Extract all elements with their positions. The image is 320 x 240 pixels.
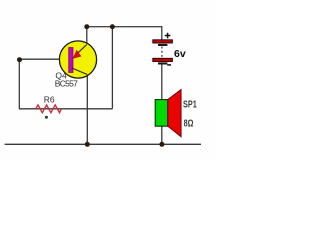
wire resistor row horizontal — [19, 108, 113, 110]
wire battery branch top corner down — [161, 26, 163, 40]
resistor R6 value asterisk — [45, 116, 48, 119]
battery B1 positive plus sign — [165, 33, 171, 39]
transistor base bar — [69, 48, 73, 73]
wire top rail — [87, 26, 162, 28]
svg-text:SP1: SP1 — [183, 98, 197, 110]
wire left vertical base-to-resistor — [18, 59, 20, 109]
wire battery to speaker — [161, 65, 163, 101]
battery B1 cell2 long red plate — [153, 58, 173, 61]
wire bottom rail — [5, 143, 201, 145]
battery B1 cell1 long red plate — [153, 40, 173, 43]
transistor Q2 body circle — [59, 41, 96, 78]
node A base/resistor junction — [17, 57, 22, 62]
resistor R6 zigzag — [36, 105, 62, 113]
node bottom rail collector tee — [85, 142, 90, 147]
battery B1 cell2 short plate — [158, 62, 167, 64]
battery B1 inter-cell dashed link — [161, 47, 163, 59]
battery B1 cell1 short plate — [158, 44, 167, 46]
battery B1 negative minus sign — [167, 64, 171, 66]
wire base horizontal — [19, 58, 68, 60]
node bottom rail speaker tee — [159, 142, 164, 147]
wire collector down to bottom rail — [86, 75, 88, 145]
transistor collector diagonal — [72, 68, 88, 75]
transistor emitter arrow (PNP, points to base bar) — [73, 50, 81, 58]
node top rail bias tee — [110, 24, 115, 29]
transistor emitter diagonal — [77, 45, 87, 55]
svg-text:BC557: BC557 — [55, 78, 78, 88]
svg-text:R6: R6 — [44, 95, 55, 105]
wire bias drop from top rail to resistor row — [111, 27, 113, 109]
svg-text:8Ω: 8Ω — [184, 117, 194, 129]
svg-text:6v: 6v — [174, 48, 186, 60]
wire speaker to bottom rail — [161, 126, 163, 144]
speaker SP1 cone — [168, 90, 181, 137]
node top rail left (emitter tee) — [84, 24, 89, 29]
speaker SP1 coil body — [155, 100, 167, 127]
wire emitter drop from top rail — [86, 27, 88, 45]
